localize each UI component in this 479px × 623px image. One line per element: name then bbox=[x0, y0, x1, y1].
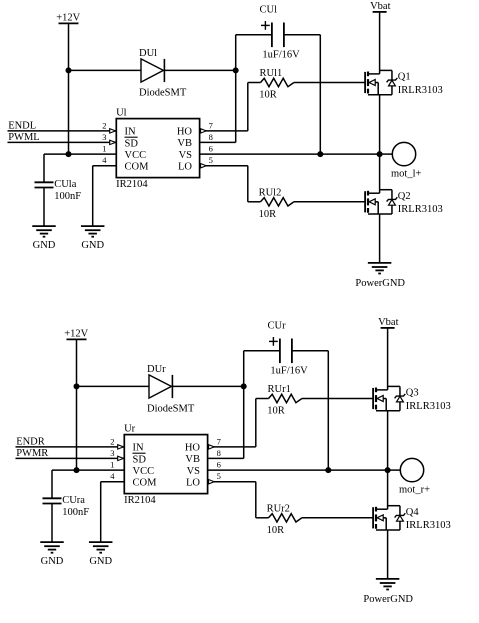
svg-text:VCC: VCC bbox=[125, 150, 147, 161]
resistor RUr1 10R bbox=[269, 394, 302, 402]
node junction cap/VS bbox=[317, 151, 323, 157]
svg-text:VS: VS bbox=[187, 466, 201, 477]
svg-text:5: 5 bbox=[209, 155, 213, 165]
svg-text:GND: GND bbox=[81, 240, 104, 251]
op-amp/driver IC Ur IR2104 bbox=[124, 435, 207, 494]
svg-text:CUr: CUr bbox=[268, 321, 287, 332]
svg-text:3: 3 bbox=[110, 448, 114, 458]
wire ENDR to IN pin 2 bbox=[16, 446, 125, 448]
svg-text:Q4: Q4 bbox=[406, 507, 420, 518]
wire DUl cathode to bootstrap node bbox=[164, 69, 235, 71]
svg-text:Q1: Q1 bbox=[398, 72, 411, 83]
svg-text:GND: GND bbox=[33, 240, 56, 251]
svg-text:COM: COM bbox=[125, 161, 150, 172]
svg-text:HO: HO bbox=[185, 443, 201, 454]
svg-text:DiodeSMT: DiodeSMT bbox=[147, 403, 195, 414]
wire bootstrap node to VB pin 8 bbox=[243, 351, 245, 459]
node junction motor output bbox=[377, 151, 383, 157]
svg-text:SD: SD bbox=[133, 454, 147, 465]
wire DUr cathode to bootstrap node bbox=[172, 385, 243, 387]
svg-text:1uF/16V: 1uF/16V bbox=[270, 365, 308, 376]
wire VCC pin 1 to +12V and cap bbox=[52, 469, 124, 471]
node junction +12V/VCC bbox=[66, 151, 72, 157]
svg-text:COM: COM bbox=[133, 477, 158, 488]
wire VS pin 6 to motor node bbox=[200, 153, 380, 155]
svg-text:Q2: Q2 bbox=[398, 191, 411, 202]
wire RUr2 to Q4 gate bbox=[302, 517, 373, 519]
svg-text:1: 1 bbox=[110, 460, 114, 470]
svg-text:PWML: PWML bbox=[8, 132, 40, 143]
wire +12V rail vertical bbox=[76, 339, 78, 470]
wire +12V rail vertical bbox=[68, 23, 70, 154]
motor terminal mot_r+ bbox=[388, 469, 401, 471]
svg-text:Vbat: Vbat bbox=[370, 1, 390, 12]
transistor Q2 IRLR3103 bbox=[364, 191, 366, 212]
diode DUl DiodeSMT bbox=[141, 59, 163, 82]
svg-text:PowerGND: PowerGND bbox=[363, 594, 413, 605]
wire PWMR to SD pin 3 bbox=[16, 457, 125, 459]
svg-text:+12V: +12V bbox=[64, 329, 88, 340]
capacitor CUla 100nF bbox=[43, 154, 45, 182]
svg-text:LO: LO bbox=[186, 477, 200, 488]
wire COM pin 4 to GND bbox=[93, 165, 117, 167]
wire HO pin 7 to RUl1 bbox=[200, 130, 248, 132]
svg-text:PWMR: PWMR bbox=[16, 448, 48, 459]
wire +12V to DUr anode bbox=[77, 385, 150, 387]
left motor half-bridge driver circuit bbox=[8, 1, 443, 289]
svg-text:100nF: 100nF bbox=[62, 507, 89, 518]
svg-text:2: 2 bbox=[110, 436, 114, 446]
wire motor node to Q4 drain bbox=[387, 470, 389, 509]
svg-text:PowerGND: PowerGND bbox=[355, 278, 405, 289]
node junction +12V / diode DUr anode bbox=[74, 383, 80, 389]
wire LO pin 5 to RUl2 bbox=[200, 165, 248, 167]
capacitor CUra 100nF bbox=[51, 470, 53, 498]
wire HO pin 7 to RUr1 bbox=[208, 446, 256, 448]
svg-text:GND: GND bbox=[41, 556, 64, 567]
wire RUl1 to Q1 gate bbox=[294, 82, 365, 84]
svg-text:+12V: +12V bbox=[56, 13, 80, 24]
svg-text:10R: 10R bbox=[259, 209, 277, 220]
wire ENDL to IN pin 2 bbox=[8, 130, 117, 132]
resistor RUr2 10R bbox=[269, 514, 302, 522]
svg-text:RUl2: RUl2 bbox=[259, 187, 282, 198]
svg-text:VB: VB bbox=[185, 454, 200, 465]
svg-text:IR2104: IR2104 bbox=[116, 179, 148, 190]
svg-text:IN: IN bbox=[125, 127, 136, 138]
svg-text:RUl1: RUl1 bbox=[260, 68, 283, 79]
svg-text:Ur: Ur bbox=[124, 423, 136, 434]
svg-text:SD: SD bbox=[125, 138, 139, 149]
svg-text:DiodeSMT: DiodeSMT bbox=[139, 87, 187, 98]
wire Q1 source to motor node bbox=[379, 95, 381, 154]
wire Q4 source to PowerGND bbox=[387, 530, 389, 579]
wire VS pin 6 to motor node bbox=[208, 469, 388, 471]
svg-text:IN: IN bbox=[133, 443, 144, 454]
svg-text:CUla: CUla bbox=[54, 179, 77, 190]
svg-text:DUr: DUr bbox=[147, 364, 166, 375]
svg-text:RUr2: RUr2 bbox=[267, 503, 290, 514]
svg-text:ENDL: ENDL bbox=[8, 121, 36, 132]
svg-text:8: 8 bbox=[209, 132, 213, 142]
svg-text:IRLR3103: IRLR3103 bbox=[406, 401, 451, 412]
svg-text:VS: VS bbox=[179, 150, 193, 161]
svg-text:VB: VB bbox=[177, 138, 192, 149]
transistor Q1 IRLR3103 bbox=[364, 72, 366, 93]
svg-text:1: 1 bbox=[102, 144, 106, 154]
wire CUr to VS net bbox=[292, 350, 328, 352]
svg-text:IRLR3103: IRLR3103 bbox=[398, 85, 443, 96]
svg-text:6: 6 bbox=[209, 144, 213, 154]
transistor Q3 IRLR3103 bbox=[372, 388, 374, 409]
op-amp/driver IC Ul IR2104 bbox=[116, 119, 199, 178]
svg-text:4: 4 bbox=[102, 155, 107, 165]
svg-text:100nF: 100nF bbox=[54, 191, 81, 202]
wire RUr1 to Q3 gate bbox=[302, 398, 373, 400]
node junction bootstrap (diode/cap/VB) bbox=[233, 67, 239, 73]
svg-text:RUr1: RUr1 bbox=[268, 384, 291, 395]
resistor RUl2 10R bbox=[261, 198, 294, 206]
svg-text:6: 6 bbox=[217, 460, 221, 470]
svg-text:CUl: CUl bbox=[260, 5, 278, 16]
wire Q3 source to motor node bbox=[387, 411, 389, 470]
svg-text:2: 2 bbox=[102, 120, 106, 130]
wire Vbat to Q1 drain bbox=[379, 12, 381, 74]
wire PWML to SD pin 3 bbox=[8, 141, 117, 143]
wire RUl2 to Q2 gate bbox=[294, 201, 365, 203]
svg-text:3: 3 bbox=[102, 132, 106, 142]
svg-text:GND: GND bbox=[89, 556, 112, 567]
wire motor node to Q2 drain bbox=[379, 154, 381, 193]
svg-text:10R: 10R bbox=[259, 90, 277, 101]
svg-text:LO: LO bbox=[178, 161, 192, 172]
svg-text:10R: 10R bbox=[267, 406, 285, 417]
wire LO pin 5 to RUr2 bbox=[208, 481, 256, 483]
wire Vbat to Q3 drain bbox=[387, 328, 389, 390]
svg-text:Vbat: Vbat bbox=[378, 317, 398, 328]
wire bootstrap node to VB pin 8 bbox=[235, 35, 237, 143]
svg-text:4: 4 bbox=[110, 471, 115, 481]
svg-text:mot_r+: mot_r+ bbox=[399, 485, 430, 496]
svg-text:CUra: CUra bbox=[62, 495, 85, 506]
svg-text:VCC: VCC bbox=[133, 466, 155, 477]
ground GND (under CUra) bbox=[40, 541, 64, 543]
svg-text:IRLR3103: IRLR3103 bbox=[398, 204, 443, 215]
svg-text:IR2104: IR2104 bbox=[124, 495, 156, 506]
wire Q2 source to PowerGND bbox=[379, 214, 381, 263]
svg-text:Ul: Ul bbox=[116, 107, 127, 118]
svg-text:10R: 10R bbox=[267, 525, 285, 536]
node junction motor output bbox=[385, 467, 391, 473]
svg-text:1uF/16V: 1uF/16V bbox=[262, 49, 300, 60]
right motor half-bridge driver circuit bbox=[16, 317, 451, 605]
svg-text:8: 8 bbox=[217, 448, 221, 458]
ground GND (COM) bbox=[89, 541, 113, 543]
resistor RUl1 10R bbox=[261, 78, 294, 86]
svg-text:Q3: Q3 bbox=[406, 388, 419, 399]
svg-text:7: 7 bbox=[209, 120, 213, 130]
diode DUr DiodeSMT bbox=[149, 375, 171, 398]
svg-text:ENDR: ENDR bbox=[16, 437, 45, 448]
svg-text:IRLR3103: IRLR3103 bbox=[406, 520, 451, 531]
node junction +12V / diode DUl anode bbox=[66, 67, 72, 73]
svg-text:mot_l+: mot_l+ bbox=[391, 169, 422, 180]
svg-text:7: 7 bbox=[217, 436, 221, 446]
svg-text:DUl: DUl bbox=[139, 48, 157, 59]
ground GND (under CUla) bbox=[32, 225, 56, 227]
capacitor CUl 1uF/16V (polarized) bbox=[236, 34, 272, 36]
motor terminal mot_l+ bbox=[380, 153, 393, 155]
svg-text:5: 5 bbox=[217, 471, 221, 481]
wire VCC pin 1 to +12V and cap bbox=[44, 153, 116, 155]
ground GND (COM) bbox=[81, 225, 105, 227]
ground PowerGND bbox=[368, 262, 392, 264]
node junction +12V/VCC bbox=[74, 467, 80, 473]
wire COM pin 4 to GND bbox=[101, 481, 125, 483]
wire CUl to VS net bbox=[284, 34, 320, 36]
node junction cap/VS bbox=[325, 467, 331, 473]
svg-text:HO: HO bbox=[177, 127, 193, 138]
transistor Q4 IRLR3103 bbox=[372, 507, 374, 528]
ground PowerGND bbox=[376, 578, 400, 580]
wire +12V to DUl anode bbox=[69, 69, 142, 71]
capacitor CUr 1uF/16V (polarized) bbox=[244, 350, 280, 352]
node junction bootstrap (diode/cap/VB) bbox=[241, 383, 247, 389]
